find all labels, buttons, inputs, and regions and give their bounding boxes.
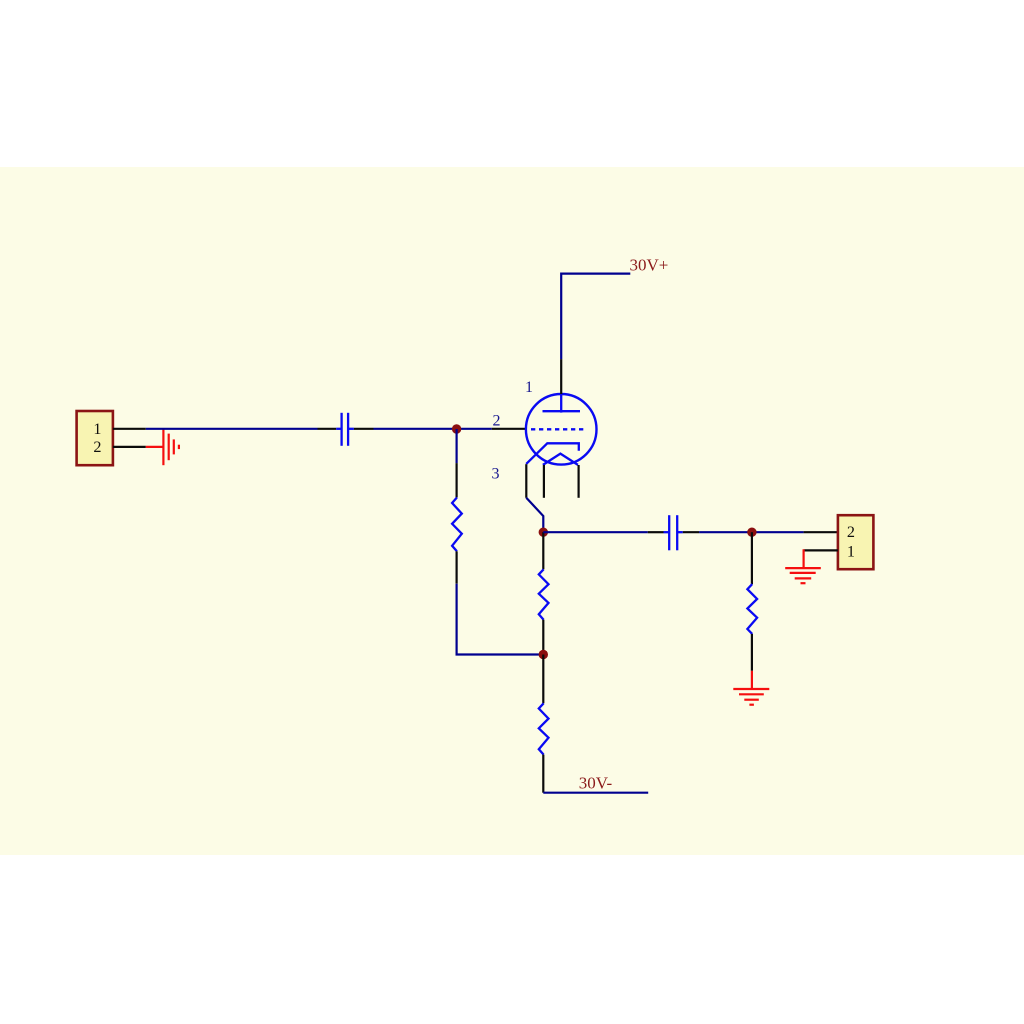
wire to ground from pin 2 [146,446,164,448]
resistor R3 [539,703,549,754]
node C junction dot [539,650,548,659]
pin of C1 (right) [354,428,374,430]
pin of C2 (left) [648,531,664,533]
R4 bottom pin [751,634,753,671]
R2 top pin [542,532,544,569]
wire C2 to node D [699,531,804,533]
wire R1 to node C [457,584,544,655]
pin 2 of J2 [804,531,838,533]
svg-text:2: 2 [93,438,101,456]
V1 grid (dashed) [531,428,585,430]
pin of C1 (left) [318,428,337,430]
R1 top pin [456,463,458,497]
wire J2 pin1 to ground [802,549,804,568]
svg-text:2: 2 [847,523,855,541]
pin 1 of J2 [804,549,838,551]
R4 top pin [751,532,753,584]
capacitor C2 [664,515,683,550]
wire C1 to grid node [374,428,492,430]
capacitor C1 [336,413,354,446]
wire J1 pin1 to C1 [146,428,318,430]
wire R4 to ground [751,671,753,689]
pin 2 of tube (grid) [492,428,527,430]
wire to 30V- [543,792,648,794]
schematic sheet background [0,167,1024,855]
svg-text:1: 1 [847,543,855,561]
wire plate to 30V+ [561,274,630,360]
resistor R1 [452,498,462,552]
node A junction dot [452,424,461,433]
svg-text:1: 1 [525,379,533,396]
V1 plate [543,394,581,413]
svg-text:2: 2 [493,413,501,430]
resistor R4 [747,584,757,634]
V1 cathode [526,443,579,464]
svg-text:1: 1 [93,420,101,438]
svg-text:3: 3 [492,466,500,483]
pin 3 of tube (cathode) [525,464,527,498]
wire cathode bend to node B [526,498,543,532]
V1 heater [543,454,578,465]
connector J2 [838,515,874,569]
node D junction dot [747,528,756,537]
resistor R2 [539,569,549,619]
ground (earth, red) at J2 [785,568,821,583]
ground (rotated earth, red) [163,429,179,466]
connector J1 [77,411,113,465]
wire node A down to R1 [456,429,458,463]
pin of C2 (right) [683,531,699,533]
ground (earth, red) below R4 [733,689,769,705]
pin 1 of tube (plate) [560,359,562,394]
R1 bottom pin [456,551,458,583]
triode V1 envelope [526,394,597,465]
pin 1 of J1 [113,428,146,430]
R3 top pin [542,655,544,704]
R3 bottom pin [542,755,544,793]
wire node B to C2 [543,531,648,533]
node B junction dot [539,528,548,537]
heater pin left [543,465,545,498]
R2 bottom pin [542,620,544,655]
svg-text:30V+: 30V+ [630,256,669,275]
pin 2 of J1 [113,446,146,448]
heater pin right [577,465,579,498]
svg-text:30V-: 30V- [579,774,613,793]
